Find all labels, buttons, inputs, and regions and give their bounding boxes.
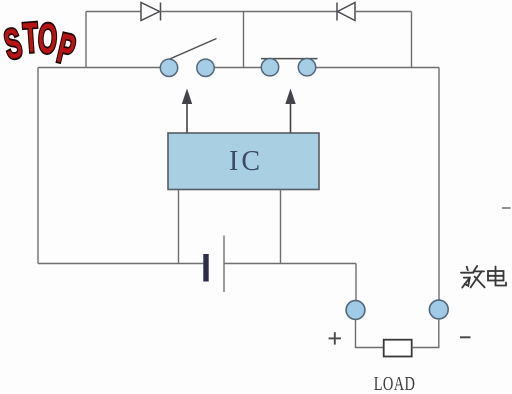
switch S1 contact circle left <box>160 59 177 76</box>
wire vertical from top wire left end <box>85 12 87 69</box>
terminal plus <box>346 301 365 320</box>
terminal minus <box>429 300 448 319</box>
svg-text:O: O <box>37 16 58 63</box>
wire bottom right horizontal <box>224 263 356 265</box>
wire bottom left horizontal <box>38 263 203 265</box>
arrow from IC to S1 <box>182 89 192 134</box>
svg-text:IC: IC <box>229 146 263 177</box>
svg-text:LOAD: LOAD <box>374 373 416 394</box>
arrow from IC to S2 <box>285 89 295 134</box>
pushbutton S2 contact circle right <box>298 58 315 75</box>
pushbutton S2 bar <box>261 58 318 60</box>
label dian (discharge) char 2 <box>488 267 506 286</box>
STOP wordart <box>0 15 79 74</box>
wire plus terminal to load <box>356 319 384 347</box>
battery BT1 negative plate <box>203 254 208 282</box>
battery BT1 positive plate <box>223 236 225 293</box>
wire top-left horizontal <box>86 11 141 13</box>
LOAD label <box>374 373 416 394</box>
IC U1 body <box>168 133 319 190</box>
pushbutton S2 contact circle left <box>261 58 278 75</box>
wire IC pin 1 <box>178 190 180 264</box>
plus label <box>329 332 341 344</box>
wire switch row left <box>38 67 161 69</box>
switch S1 contact circle right <box>197 59 214 76</box>
wire vertical from top wire right end <box>411 12 413 68</box>
wire switch row right <box>315 67 439 69</box>
diode D1 <box>141 3 161 21</box>
wire load to minus terminal <box>412 319 439 348</box>
wire right vertical to minus terminal <box>438 68 440 301</box>
wire top-middle horizontal <box>161 11 338 13</box>
label fang (discharge) char 1 <box>461 266 485 288</box>
wire top-right horizontal <box>355 11 412 13</box>
wire IC pin 2 <box>280 190 282 264</box>
diode D2 <box>337 3 355 21</box>
wire vertical middle junction <box>243 12 245 68</box>
switch S1 lever <box>164 39 217 62</box>
load resistor body <box>384 340 412 357</box>
wire left vertical <box>37 68 39 264</box>
dash right edge <box>502 207 511 209</box>
minus label <box>460 336 471 338</box>
wire down to plus terminal <box>355 264 357 302</box>
wire switch row middle <box>213 67 262 69</box>
